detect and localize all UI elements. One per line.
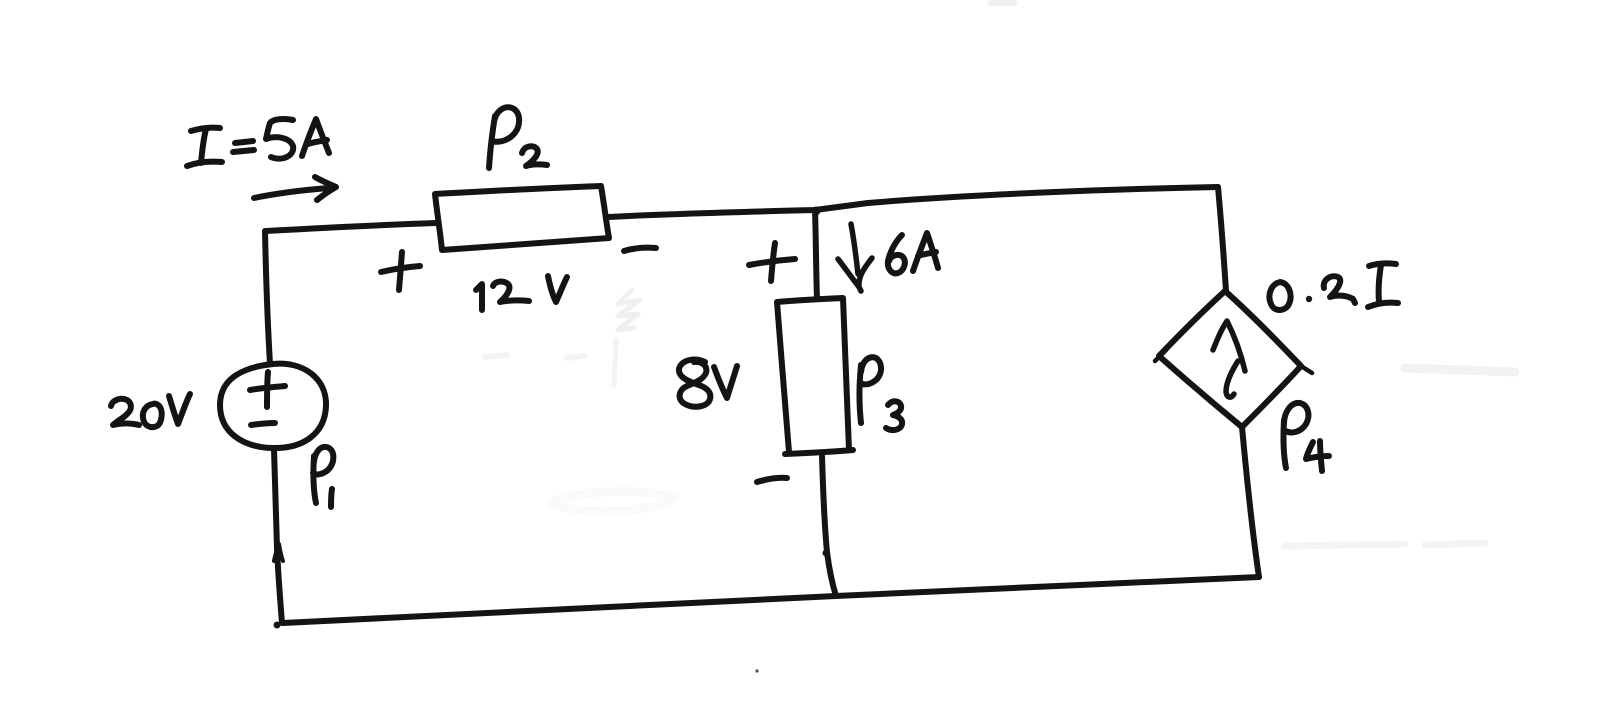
label P1 xyxy=(313,447,333,507)
right vertical wire upper xyxy=(1218,187,1226,291)
wire top-left horizontal xyxy=(266,223,436,231)
current arrow I xyxy=(254,177,336,200)
faint paper smudges xyxy=(485,3,1515,546)
resistor box P2 xyxy=(435,186,609,250)
wire below P3 xyxy=(822,456,836,596)
voltage source V1 20V (P1) xyxy=(220,364,326,448)
wire top right xyxy=(815,187,1218,210)
junction dot top middle xyxy=(812,207,821,216)
ink speck xyxy=(755,669,758,672)
label P2 xyxy=(489,107,547,168)
6A down arrow xyxy=(838,224,872,291)
right vertical wire lower xyxy=(1242,427,1259,577)
label P4 xyxy=(1283,403,1329,471)
small up arrowhead on left wire xyxy=(274,544,283,561)
minus label right of P2 xyxy=(624,248,656,251)
middle vertical wire top xyxy=(815,210,817,299)
minus sign inside source xyxy=(251,423,275,425)
bottom-left corner blob xyxy=(274,622,281,629)
label 12V xyxy=(476,276,567,310)
resistor box P3 xyxy=(777,298,853,454)
label I=5A xyxy=(187,119,329,166)
wire left vertical upper xyxy=(265,231,270,364)
junction dot bottom middle xyxy=(833,592,839,598)
plus label middle branch xyxy=(749,243,795,281)
label 0.2I xyxy=(1269,263,1398,310)
bottom wire xyxy=(283,577,1259,623)
corner blob top-left xyxy=(263,228,268,233)
tick at right diamond vertex xyxy=(1155,350,1312,373)
wire left vertical lower xyxy=(274,449,282,623)
label 8V xyxy=(679,360,737,407)
minus label below P3 xyxy=(757,478,787,482)
plus label left of P2 xyxy=(381,252,420,290)
label 20V xyxy=(111,394,190,427)
arrow inside diamond xyxy=(1213,321,1245,397)
plus sign inside source xyxy=(250,372,285,407)
label 6A xyxy=(888,233,938,273)
dependent source diamond P4 xyxy=(1159,291,1301,427)
small arrow dot on wire below P3 xyxy=(823,550,830,557)
wire P2 to middle junction xyxy=(608,210,815,217)
label P3 xyxy=(860,357,903,430)
